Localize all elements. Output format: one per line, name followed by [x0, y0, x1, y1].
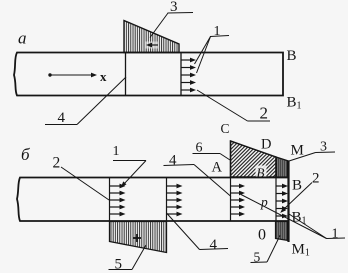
- svg-text:2: 2: [312, 171, 320, 187]
- svg-text:B: B: [287, 48, 297, 64]
- svg-text:2: 2: [53, 155, 61, 172]
- svg-text:C: C: [221, 121, 230, 136]
- svg-text:а: а: [18, 29, 27, 48]
- svg-text:x: x: [100, 69, 107, 84]
- svg-text:4: 4: [210, 237, 218, 253]
- svg-text:5: 5: [115, 257, 123, 273]
- svg-text:D: D: [261, 137, 271, 153]
- svg-text:2: 2: [260, 104, 269, 123]
- svg-text:4: 4: [169, 153, 177, 169]
- svg-text:A: A: [212, 160, 223, 176]
- svg-text:B: B: [292, 178, 302, 194]
- svg-text:0: 0: [258, 227, 266, 244]
- svg-text:4: 4: [58, 110, 66, 126]
- svg-text:б: б: [21, 145, 30, 164]
- svg-text:1: 1: [332, 227, 339, 242]
- svg-text:1: 1: [113, 144, 120, 159]
- svg-text:M: M: [291, 143, 304, 159]
